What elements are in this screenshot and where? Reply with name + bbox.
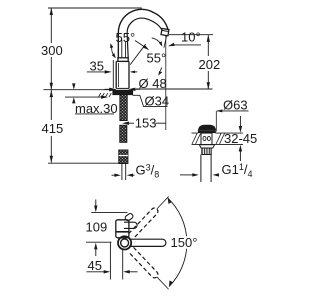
top extension line (handle front) [91,212,127,214]
counter hatching left of drain [192,134,201,145]
dim 32-45 bottom arrow [239,152,241,162]
arrow down at 300 bottom [50,83,53,90]
10 deg tilted axis line [164,36,167,48]
aerator nozzle (10 deg tilt) [161,28,169,35]
dia48 short leader [131,71,137,73]
knurled barrel [202,148,211,155]
max.30 top arrow [73,84,75,87]
55deg2 arc arrow up right [152,38,162,45]
spout axis extension line [86,241,112,243]
arc arrow bottom [169,280,173,286]
svg-text:153: 153 [135,115,157,130]
spout inner arc [127,18,162,33]
G1 1/4 arrows [180,174,193,176]
dim 32-45 top arrow [239,116,241,126]
extension line top (spout height ref) [48,7,142,9]
10 deg leader line [173,44,202,46]
dim 35 extension line [112,60,114,88]
dia63 leader vertical [215,111,217,132]
threaded shank / braided hose upper [120,95,128,121]
svg-text:10°: 10° [181,30,201,45]
dimension 300 vertical line [50,9,52,44]
arrow up at 300 top [50,8,53,15]
drain nut [199,145,214,148]
hatching left of faucet base [99,93,112,97]
arrow down 202 [207,82,210,89]
lever capsule top view [124,222,137,228]
svg-text:Ø34: Ø34 [145,93,170,108]
svg-text:55°: 55° [116,30,136,45]
svg-text:55°: 55° [147,51,167,66]
arrow up 202 [207,35,210,42]
collar / cartridge housing [118,58,128,62]
arrow up at 415 top [50,90,53,97]
counter top line left with arrow [43,89,109,91]
body top view [116,220,129,238]
55deg1 leader arrow to right [135,41,144,47]
deck escutcheon flange [113,90,133,94]
solid spout top view [129,239,166,246]
dim45 right arrow [130,271,138,273]
svg-text:45: 45 [88,258,102,273]
drain dome cap [198,125,215,130]
svg-text:150°: 150° [171,235,198,250]
lever axis extension line [130,44,145,64]
slots [203,136,206,140]
swivel ring inner [121,239,129,247]
55deg2 small arrow below [160,67,162,70]
arrow down at 415 bottom [50,156,53,163]
dim 153 right segment [156,122,166,124]
dim45 extension lines [109,242,111,280]
150 deg arc [168,198,187,287]
dim 153 arrow [129,122,134,124]
G3/8 arrows [112,174,116,176]
dim45 left arrow [87,271,105,273]
dashed spout position lower [129,247,171,291]
svg-text:35: 35 [90,58,104,73]
max.30 bottom arrow [73,101,75,103]
svg-text:109: 109 [86,219,108,234]
dia48 arrows at body base [105,88,111,90]
svg-text:202: 202 [199,57,221,72]
dim 202 line [207,35,209,56]
arc arrow top [168,198,172,204]
body cylinder [115,61,117,88]
counter bottom line left with arrow [65,96,102,98]
dia34 counter line right of flange [133,95,168,106]
swivel ring outer [118,236,131,249]
svg-text:Ø63: Ø63 [223,97,248,112]
braided hose lower [120,125,127,142]
dim 35 leader with arrow [87,71,105,73]
label 150 deg [170,236,200,249]
spout outer arc [118,9,168,33]
counter hatching right of drain [216,134,225,145]
svg-text:415: 415 [42,121,64,136]
counter lines at drain [192,132,244,134]
hose tails [122,164,126,181]
extension line bottom (hose end ref) [48,162,119,164]
tailpipe [201,155,211,183]
svg-text:300: 300 [41,43,63,58]
left leg of spout [117,33,119,58]
drain body in counter [201,133,212,145]
10 deg vertical reference line [165,36,167,130]
dim 202 top extension [169,34,213,36]
handle knob top view [124,213,134,222]
drain flange [198,131,215,133]
dimension 415 vertical line [50,90,52,120]
body front dark line [117,231,129,233]
55deg1 arc with arrows [112,47,116,58]
hose end fitting [119,150,128,164]
dim109 bottom arrow [95,250,97,257]
svg-text:32-45: 32-45 [224,131,257,146]
dashed spout position upper [129,194,171,238]
dim109 top arrow [95,200,97,206]
